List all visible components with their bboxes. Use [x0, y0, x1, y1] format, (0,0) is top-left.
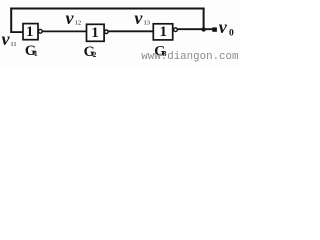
wire: input stub into G1	[10, 31, 24, 33]
svg-text:v: v	[2, 29, 11, 49]
G3 output bubble	[174, 28, 178, 32]
inverter G2 box	[87, 24, 105, 41]
svg-text:1: 1	[26, 24, 34, 40]
svg-text:1: 1	[160, 24, 168, 40]
junction dot: feedback node on output wire	[201, 27, 205, 31]
svg-text:11: 11	[10, 41, 16, 48]
wire: G1 output to G2 input	[42, 30, 87, 32]
svg-text:v: v	[219, 17, 228, 37]
svg-text:v: v	[66, 8, 75, 28]
svg-text:1: 1	[91, 25, 99, 41]
svg-text:0: 0	[229, 29, 234, 39]
svg-text:1: 1	[34, 49, 38, 58]
inverter G3 box	[153, 24, 172, 40]
svg-text:www.diangon.com: www.diangon.com	[141, 51, 238, 63]
inverter G1 box	[23, 24, 38, 40]
node label v12	[66, 8, 82, 28]
svg-text:v: v	[134, 8, 143, 28]
node label vo (output)	[219, 17, 234, 39]
G2 output bubble	[105, 30, 109, 34]
gate designator G1	[25, 43, 38, 59]
wire: right feedback vertical	[203, 8, 205, 30]
svg-text:13: 13	[144, 20, 151, 27]
node label v11	[2, 29, 17, 49]
gate designator G2	[84, 44, 97, 60]
wire: top feedback horizontal	[10, 8, 204, 10]
gate designator G3	[154, 44, 167, 60]
G1 output bubble	[38, 29, 42, 33]
wire: left feedback vertical	[10, 8, 12, 33]
wire: G3 output to output terminal	[177, 28, 213, 30]
svg-text:12: 12	[75, 20, 82, 27]
wire: G2 output to G3 input	[108, 30, 153, 32]
output terminal square	[212, 27, 217, 31]
node label v13	[134, 8, 150, 28]
svg-text:2: 2	[93, 50, 97, 59]
